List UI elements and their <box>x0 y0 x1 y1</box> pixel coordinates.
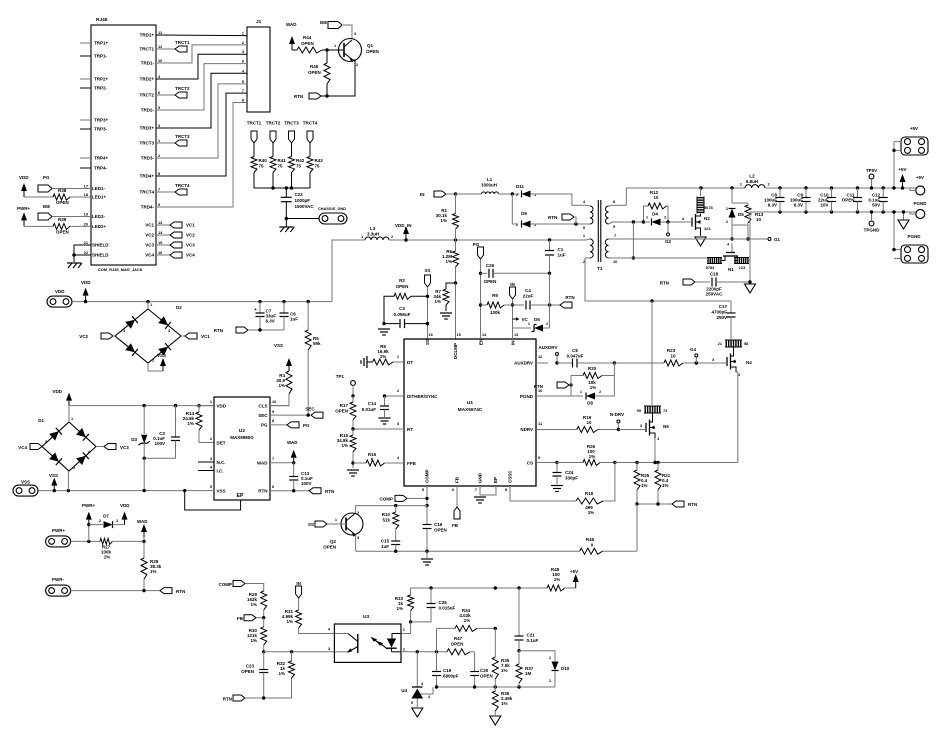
wire D5 bottom row <box>731 225 733 239</box>
svg-text:D5: D5 <box>738 212 744 217</box>
svg-text:10: 10 <box>586 420 592 425</box>
svg-text:OPEN: OPEN <box>308 70 321 75</box>
svg-text:C1: C1 <box>558 247 564 252</box>
wire primary return to C17 <box>652 300 731 302</box>
svg-text:75: 75 <box>278 164 284 169</box>
svg-text:1%: 1% <box>440 218 447 223</box>
net tag RTN (sense) <box>672 501 684 507</box>
capacitor C24 330pF <box>556 463 558 473</box>
node G4 <box>683 362 716 364</box>
svg-text:7: 7 <box>242 88 244 93</box>
ground (R36) <box>490 716 501 725</box>
RJ45 pin TRP3- stub <box>80 128 91 130</box>
svg-text:1%: 1% <box>150 569 157 574</box>
svg-text:D3: D3 <box>131 437 137 442</box>
svg-text:1%: 1% <box>641 483 648 488</box>
svg-text:WAD: WAD <box>257 461 268 466</box>
svg-text:U4: U4 <box>401 688 407 693</box>
junction C24 top <box>555 461 558 464</box>
svg-text:D11: D11 <box>516 184 525 189</box>
svg-text:VC3: VC3 <box>145 243 154 248</box>
svg-text:OPEN: OPEN <box>484 279 497 284</box>
capacitor C2 0.1uF 100V <box>175 406 177 437</box>
op-amp U2 MAX5980G <box>214 397 270 500</box>
svg-text:RTN: RTN <box>688 502 697 507</box>
svg-text:RTN: RTN <box>660 281 669 286</box>
wire SHIELD to ground <box>74 245 91 255</box>
svg-text:C24: C24 <box>565 470 574 475</box>
resistor R21 0.4 1% <box>657 463 659 471</box>
wire D9 to T1 pin5 <box>531 223 587 225</box>
wire T1 pin2 to primary return <box>585 258 652 301</box>
svg-text:TRP3+: TRP3+ <box>94 118 109 123</box>
svg-text:10: 10 <box>670 354 676 359</box>
wire opto pin2 row <box>401 651 447 653</box>
svg-text:PG: PG <box>303 423 310 428</box>
svg-text:TRP4-: TRP4- <box>94 166 108 171</box>
svg-text:R23: R23 <box>667 348 676 353</box>
svg-text:0.056uF: 0.056uF <box>394 312 411 317</box>
svg-text:AUXDRV: AUXDRV <box>514 361 533 366</box>
svg-text:0.1uF: 0.1uF <box>527 638 539 643</box>
svg-text:TRD3-: TRD3- <box>141 156 155 161</box>
net tag VC3 <box>96 446 104 448</box>
diode bridge D1 <box>42 422 96 471</box>
svg-text:C15: C15 <box>381 539 390 544</box>
svg-text:NDRV: NDRV <box>520 427 533 432</box>
resistor R31 4.99k 1% <box>298 598 300 610</box>
svg-text:TRCT4: TRCT4 <box>140 190 155 195</box>
wire PGND column <box>749 212 751 282</box>
diode D7 <box>89 524 103 526</box>
wire D8/R20 right <box>613 363 615 396</box>
svg-text:8783: 8783 <box>706 265 715 270</box>
svg-text:Q2: Q2 <box>330 539 337 544</box>
svg-text:TRD2-: TRD2- <box>141 108 155 113</box>
svg-text:330pF: 330pF <box>565 476 578 481</box>
node tag VC2 <box>156 234 170 236</box>
svg-text:FFB: FFB <box>407 461 416 466</box>
svg-text:CS: CS <box>527 461 533 466</box>
svg-text:75: 75 <box>296 164 302 169</box>
svg-text:20: 20 <box>84 221 88 226</box>
junction IN node <box>511 303 514 306</box>
junction R33/C25 <box>409 620 412 623</box>
svg-text:VC4: VC4 <box>18 445 27 450</box>
net tag RTN (U2) <box>309 488 321 494</box>
ground (R7) <box>440 312 452 314</box>
junction R2 right <box>426 295 429 298</box>
resistor R18 499 1% (CSSC) <box>509 486 511 501</box>
svg-text:SS: SS <box>308 522 314 527</box>
transistor N5 (MOSFET) <box>644 405 661 407</box>
svg-text:1%: 1% <box>662 483 669 488</box>
ground (N2 source) <box>695 237 706 246</box>
svg-text:DCLMP: DCLMP <box>453 343 458 359</box>
svg-text:VC4: VC4 <box>186 253 195 258</box>
svg-text:COMP: COMP <box>425 470 430 484</box>
capacitor C13 0.1uF 100V <box>293 463 295 477</box>
svg-text:PG: PG <box>473 242 480 247</box>
resistor R19 10 (NDRV) <box>577 427 598 433</box>
svg-text:1%: 1% <box>464 618 471 623</box>
svg-text:1%: 1% <box>250 638 257 643</box>
svg-text:FB: FB <box>452 523 459 528</box>
wire pin10 row to N1 <box>613 257 708 259</box>
capacitor C17 4700pF 250V <box>730 301 732 313</box>
wire TRD to J1 row 5 <box>156 73 247 128</box>
wire +5V rail <box>765 187 916 189</box>
wire VDD bus to L3 <box>332 240 365 302</box>
svg-text:RTN: RTN <box>258 489 267 494</box>
svg-text:FB: FB <box>455 476 460 483</box>
resistor R40 75 <box>253 143 255 157</box>
svg-text:1uF: 1uF <box>381 544 389 549</box>
resistor R46 0 <box>580 548 603 554</box>
svg-text:D7: D7 <box>103 514 109 519</box>
svg-text:75: 75 <box>315 164 321 169</box>
node tag TRCT3 <box>156 142 175 144</box>
svg-text:D8: D8 <box>587 401 593 406</box>
svg-text:OPEN: OPEN <box>301 41 314 46</box>
connector CHASSIS_GND <box>286 218 319 220</box>
node tag VC4 <box>156 254 170 256</box>
wire C1/C26 to RTN row <box>549 273 551 328</box>
svg-text:TRCT3: TRCT3 <box>140 141 155 146</box>
wire TRD to J1 row 4 <box>156 64 247 110</box>
resistor R8 16.9k 1% (DT) <box>373 359 394 365</box>
svg-text:RT: RT <box>407 427 413 432</box>
resistor R15 34.8k 1% <box>352 429 354 435</box>
resistor R16 0 (FFB) <box>353 462 366 464</box>
svg-text:L1: L1 <box>487 177 493 182</box>
resistor R38 OPEN <box>24 196 53 198</box>
svg-text:CSSC: CSSC <box>508 470 513 483</box>
svg-text:10: 10 <box>613 259 617 264</box>
zener diode D6 <box>513 327 532 329</box>
svg-text:D4: D4 <box>652 212 658 217</box>
svg-text:IEE: IEE <box>43 204 50 209</box>
svg-text:SHIELD: SHIELD <box>92 253 109 258</box>
svg-text:10: 10 <box>653 195 659 200</box>
wire Q1 emitter <box>327 60 355 96</box>
transformer T1 core <box>597 200 599 262</box>
svg-text:R2: R2 <box>399 278 405 283</box>
svg-text:R38: R38 <box>58 188 67 193</box>
resistor R13 10 <box>745 205 751 223</box>
svg-text:C19: C19 <box>443 668 452 673</box>
junction C5 right <box>613 361 616 364</box>
junction PWR+ <box>87 540 90 543</box>
capacitor C7 33uF 6.3V <box>258 300 261 303</box>
svg-text:+5V: +5V <box>916 175 924 180</box>
svg-text:1%: 1% <box>278 671 285 676</box>
svg-text:OPEN: OPEN <box>56 200 69 205</box>
inductor L2 6.8uH <box>745 185 765 188</box>
capacitor C26 OPEN <box>481 272 488 274</box>
svg-text:L2: L2 <box>749 174 755 179</box>
chassis ground (shield) <box>67 262 81 264</box>
junction C1 bottom node <box>548 303 551 306</box>
svg-text:6.3V: 6.3V <box>768 203 777 208</box>
svg-text:VC2: VC2 <box>145 233 154 238</box>
junction C21 bottom <box>517 649 520 652</box>
svg-text:1%: 1% <box>434 299 441 304</box>
svg-text:VC1: VC1 <box>145 223 154 228</box>
svg-text:G4: G4 <box>690 347 697 352</box>
svg-text:MAX5974C: MAX5974C <box>458 407 483 413</box>
svg-text:R17: R17 <box>340 403 349 408</box>
svg-text:G2: G2 <box>665 239 672 244</box>
svg-text:R9: R9 <box>492 293 498 298</box>
wire VDD row (U2) <box>69 405 214 407</box>
junction RT node <box>351 427 354 430</box>
node G2 <box>667 222 669 233</box>
svg-text:VSS: VSS <box>21 480 30 485</box>
transformer T1 primary winding bottom (pins 1,2) <box>590 239 593 258</box>
net tag VC1 <box>181 335 185 337</box>
test point TPGND <box>869 221 874 226</box>
RJ45 pin TRP1+ stub <box>80 42 91 44</box>
svg-text:RTN: RTN <box>534 384 543 389</box>
resistor R28 38.3k 1% <box>143 541 145 558</box>
ground (C24) <box>551 485 563 487</box>
svg-text:D10: D10 <box>561 666 570 671</box>
svg-text:PWR+: PWR+ <box>52 528 65 533</box>
svg-text:IN: IN <box>296 581 301 586</box>
svg-text:3.3uH: 3.3uH <box>367 232 379 237</box>
svg-text:1%: 1% <box>187 421 194 426</box>
resistor R47 OPEN <box>447 649 470 655</box>
svg-text:EP: EP <box>493 477 498 483</box>
svg-text:+5V: +5V <box>570 569 578 574</box>
wire G1 row <box>626 238 768 240</box>
svg-text:RTN: RTN <box>325 489 334 494</box>
RJ45 pin TRP4- stub <box>80 167 91 169</box>
svg-text:100V: 100V <box>154 441 165 446</box>
svg-text:GND: GND <box>478 472 483 483</box>
net tag FB (pin6) <box>456 486 458 507</box>
svg-text:TP5V: TP5V <box>866 168 877 173</box>
svg-text:TRP4+: TRP4+ <box>94 156 109 161</box>
resistor R27 100k 1% <box>100 538 112 544</box>
svg-text:VDD: VDD <box>81 280 91 285</box>
capacitor C14 0.01uF <box>384 396 386 406</box>
resistor R2 OPEN <box>394 293 411 299</box>
svg-text:17: 17 <box>84 184 88 189</box>
svg-text:TRD3+: TRD3+ <box>140 126 155 131</box>
svg-text:+5V: +5V <box>898 167 906 172</box>
svg-text:VC2: VC2 <box>79 334 88 339</box>
svg-text:1M: 1M <box>525 671 532 676</box>
svg-text:3300uH: 3300uH <box>481 183 497 188</box>
svg-text:+5V: +5V <box>910 126 918 131</box>
svg-text:TRCT4: TRCT4 <box>303 121 318 126</box>
junction PGND node <box>569 383 572 386</box>
junction COMP node <box>425 504 428 507</box>
svg-text:VSS: VSS <box>217 489 226 494</box>
svg-text:R42: R42 <box>296 158 305 163</box>
svg-text:R43: R43 <box>315 158 324 163</box>
svg-text:PGND: PGND <box>907 234 921 239</box>
svg-text:TRD1+: TRD1+ <box>140 33 155 38</box>
svg-text:Q1: Q1 <box>367 43 374 48</box>
svg-text:1uF: 1uF <box>290 317 298 322</box>
resistor R34 4.02k 1% <box>436 628 438 651</box>
resistor R10 51k <box>395 506 397 512</box>
ground (R15) <box>347 469 359 471</box>
svg-text:PGND: PGND <box>913 201 927 206</box>
resistor R1 30.1k 1% <box>455 194 457 214</box>
resistor R9 100k <box>481 304 488 306</box>
ground (PGND rail) <box>903 212 905 220</box>
inductor L1 3300uH <box>482 192 499 194</box>
svg-text:4700pF: 4700pF <box>711 310 727 315</box>
resistor R48 100 1% <box>547 585 565 591</box>
svg-text:COMP: COMP <box>219 582 233 587</box>
U3 LED <box>392 634 401 639</box>
svg-text:6.8uH: 6.8uH <box>746 179 758 184</box>
wire L3 to row <box>389 239 456 241</box>
resistor R20 10k 1% <box>571 375 583 377</box>
svg-text:I.C.: I.C. <box>217 469 224 474</box>
svg-text:TRCT4: TRCT4 <box>175 183 190 188</box>
node tag TRCT4 <box>156 191 175 193</box>
svg-text:OPEN: OPEN <box>434 528 447 533</box>
junction divider mid <box>262 650 265 653</box>
resistor R14 24.9k 1% <box>198 406 200 412</box>
svg-text:TPGND: TPGND <box>864 228 881 233</box>
svg-text:6.3V: 6.3V <box>266 319 275 324</box>
diode D8 <box>571 395 583 397</box>
svg-text:VC4: VC4 <box>145 253 154 258</box>
svg-text:1500VAC: 1500VAC <box>295 204 315 209</box>
svg-text:TRCT3: TRCT3 <box>284 121 299 126</box>
svg-text:N-DRV: N-DRV <box>610 412 624 417</box>
wire COMP to Q2 <box>356 506 427 513</box>
wire TRD to J1 row 2 <box>156 45 247 63</box>
svg-text:1%: 1% <box>396 606 403 611</box>
svg-text:RTN: RTN <box>223 697 232 702</box>
junction D2 top <box>146 300 149 303</box>
resistor R43 75 <box>309 143 311 157</box>
svg-text:OPEN: OPEN <box>480 674 493 679</box>
svg-text:VDD: VDD <box>52 389 62 394</box>
svg-text:R39: R39 <box>58 217 67 222</box>
svg-text:SHIELD: SHIELD <box>92 243 109 248</box>
diode D10 <box>519 651 555 661</box>
wire sense to R46 <box>636 504 638 551</box>
svg-text:5678: 5678 <box>704 205 713 210</box>
svg-text:TRD2+: TRD2+ <box>140 77 155 82</box>
svg-text:CLS: CLS <box>259 404 268 409</box>
svg-text:WAD: WAD <box>137 519 148 524</box>
node tag VC1 <box>156 224 170 226</box>
resistor R36 2.49k 1% <box>494 687 496 691</box>
svg-text:TRP1+: TRP1+ <box>94 41 109 46</box>
ground (R8) <box>366 356 368 368</box>
diode D5 <box>731 188 733 203</box>
svg-text:TRCT2: TRCT2 <box>175 86 190 91</box>
svg-text:TRP2-: TRP2- <box>94 86 108 91</box>
svg-text:IEE: IEE <box>320 20 327 25</box>
svg-text:VC3: VC3 <box>120 445 129 450</box>
resistor R44 OPEN <box>292 49 297 51</box>
svg-text:C4: C4 <box>525 288 531 293</box>
chassis ground <box>279 226 293 228</box>
capacitor C3 0.056uF <box>399 319 401 328</box>
RJ45 pin TRP2- stub <box>80 87 91 89</box>
svg-text:TRCT3: TRCT3 <box>175 134 190 139</box>
junction IN row <box>454 192 457 195</box>
svg-text:TRCT1: TRCT1 <box>140 47 155 52</box>
wire to N5 gate <box>618 429 644 431</box>
RJ45 pin TRP2+ stub <box>80 78 91 80</box>
svg-text:SEC: SEC <box>258 413 268 418</box>
resistor R12 10 <box>644 206 649 222</box>
svg-text:VC1: VC1 <box>186 223 195 228</box>
svg-text:LED2-: LED2- <box>92 214 106 219</box>
junction C3 <box>426 322 429 325</box>
resistor R30 121k 1% <box>263 618 265 627</box>
svg-text:G1: G1 <box>774 237 781 242</box>
diode D11 <box>522 191 531 198</box>
svg-text:D9: D9 <box>521 211 527 216</box>
svg-text:C23: C23 <box>246 664 255 669</box>
svg-text:R18: R18 <box>585 491 594 496</box>
svg-text:LED2+: LED2+ <box>92 224 107 229</box>
capacitor C19 6800pF <box>436 652 438 672</box>
wire R6 to DCLMP <box>455 283 457 339</box>
power flag VSS (D2) <box>148 363 163 371</box>
svg-text:TRCT2: TRCT2 <box>266 121 281 126</box>
resistor R29 162k 1% <box>261 591 267 610</box>
svg-text:VDD: VDD <box>217 404 227 409</box>
svg-text:50V: 50V <box>872 203 880 208</box>
wire N5 drain <box>651 301 653 406</box>
svg-text:1%: 1% <box>341 443 348 448</box>
capacitor C22 1000pF 1500VAC <box>285 188 287 197</box>
svg-text:VSS: VSS <box>157 353 166 358</box>
svg-text:VC1: VC1 <box>201 334 210 339</box>
svg-text:1%: 1% <box>590 385 597 390</box>
wire termination bus <box>254 187 310 189</box>
junction D3 bottom <box>143 489 146 492</box>
svg-text:1%: 1% <box>501 668 508 673</box>
op-amp U3 (optocoupler) <box>334 624 401 662</box>
svg-text:COM_RJ45_MAG_JACK: COM_RJ45_MAG_JACK <box>98 267 143 272</box>
svg-text:AUXDRV: AUXDRV <box>539 345 558 350</box>
wire to chassis gnd <box>285 217 288 220</box>
wire TRD1+ to J1 pin 1 <box>156 34 247 37</box>
ground (C18) <box>745 284 756 293</box>
svg-text:DITHER/SYNC: DITHER/SYNC <box>407 394 438 399</box>
svg-text:C3: C3 <box>399 306 405 311</box>
svg-text:OPEN: OPEN <box>366 49 379 54</box>
svg-text:10: 10 <box>158 58 162 63</box>
svg-text:PWR+: PWR+ <box>17 206 30 211</box>
resistor R6 1.2M 1% <box>455 240 457 251</box>
svg-text:N.C.: N.C. <box>217 460 226 465</box>
junction C26 right <box>548 272 551 275</box>
svg-text:100k: 100k <box>490 310 501 315</box>
svg-text:T1: T1 <box>597 266 603 272</box>
resistor R23 10 <box>664 360 683 366</box>
svg-text:DET: DET <box>217 441 226 446</box>
wire U2 EP loop <box>185 491 241 510</box>
svg-text:VSS: VSS <box>274 343 283 348</box>
svg-text:1%: 1% <box>104 555 111 560</box>
